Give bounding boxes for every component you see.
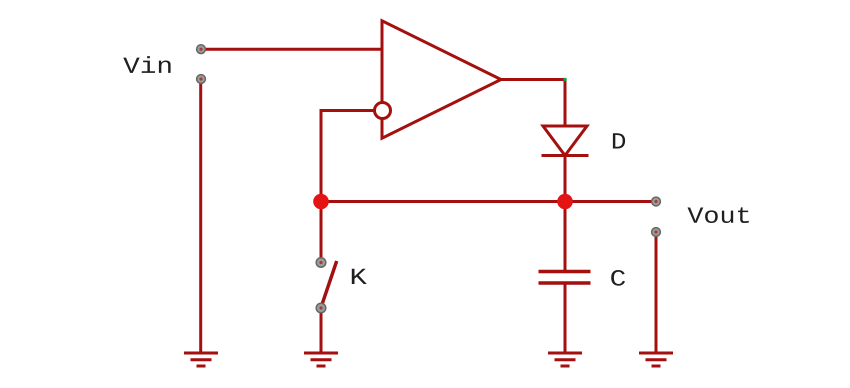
ground symbol below Vout bbox=[639, 353, 673, 366]
label K bbox=[352, 269, 367, 284]
ground symbol below capacitor C bbox=[548, 353, 582, 366]
terminal switch K top bbox=[316, 258, 326, 268]
wire switch bottom terminal down to ground bbox=[320, 308, 323, 353]
wire node down to switch top terminal bbox=[320, 202, 323, 259]
label Vout bbox=[688, 207, 749, 223]
ground symbol below Vin bbox=[184, 353, 218, 366]
wire Vin top terminal to op-amp non-inverting input bbox=[201, 48, 382, 51]
label Vin bbox=[123, 56, 170, 73]
terminal Vin bottom bbox=[197, 75, 206, 84]
wire op-amp output to diode anode bbox=[501, 80, 565, 127]
op-amp U1 triangle bbox=[382, 21, 501, 138]
label D bbox=[613, 133, 625, 148]
switch K blade bbox=[323, 261, 337, 303]
wire Vin lower terminal down to ground bbox=[199, 79, 202, 353]
op-amp U1 inverting input bubble bbox=[375, 103, 391, 119]
wire node down to capacitor top plate bbox=[564, 202, 567, 272]
wire diode cathode down to output node bbox=[564, 156, 567, 202]
ground symbol below switch K bbox=[304, 353, 338, 366]
terminal switch K bottom bbox=[316, 303, 326, 313]
terminal Vout top bbox=[652, 197, 661, 206]
junction node at feedback/output net left bbox=[313, 194, 329, 210]
terminal Vin top bbox=[197, 45, 206, 54]
green probe dot at output corner bbox=[563, 78, 566, 81]
wire main horizontal net at output node bbox=[321, 200, 656, 203]
wire Vout lower terminal down to ground bbox=[655, 232, 658, 353]
label C bbox=[611, 270, 625, 286]
junction node at diode/capacitor bbox=[557, 194, 573, 210]
terminal Vout bottom bbox=[652, 228, 661, 237]
capacitor C symbol bbox=[539, 272, 591, 284]
wire feedback from inverting bubble to left and down to node bbox=[321, 111, 374, 202]
diode D symbol bbox=[542, 126, 589, 156]
wire capacitor bottom plate down to ground bbox=[564, 283, 567, 353]
